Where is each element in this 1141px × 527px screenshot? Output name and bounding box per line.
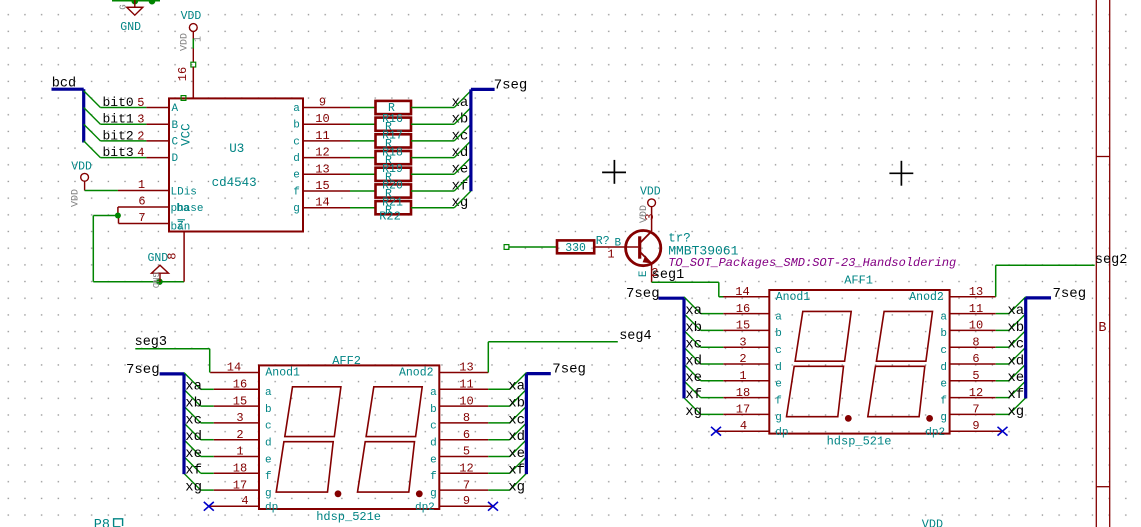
U3 pin 7 (blank) <box>119 223 170 225</box>
AFF1 pin 14 (Anod1) <box>720 296 770 298</box>
wire <box>350 107 376 109</box>
wire <box>201 388 214 390</box>
svg-text:5: 5 <box>137 96 144 110</box>
svg-text:AFF2: AFF2 <box>332 354 361 368</box>
wire <box>201 439 214 441</box>
bus 7seg (top) <box>469 89 472 191</box>
svg-text:17: 17 <box>233 478 247 492</box>
svg-text:xg: xg <box>452 195 469 211</box>
wire <box>701 380 724 382</box>
svg-text:xc: xc <box>1007 337 1024 353</box>
transistor emitter pin 2 <box>651 264 653 283</box>
bus entry <box>184 423 201 440</box>
svg-text:bit0: bit0 <box>103 95 134 110</box>
AFF2 pin 3 (c) <box>214 422 259 424</box>
svg-text:R22: R22 <box>379 210 401 224</box>
svg-text:seg1: seg1 <box>652 268 684 283</box>
svg-text:10: 10 <box>315 112 329 126</box>
svg-text:g: g <box>293 203 300 215</box>
svg-text:B: B <box>1098 321 1106 336</box>
svg-text:G: G <box>119 4 129 9</box>
svg-text:5: 5 <box>972 369 979 383</box>
svg-text:1: 1 <box>739 369 746 383</box>
svg-text:2: 2 <box>739 352 746 366</box>
svg-text:2: 2 <box>137 129 144 143</box>
AFF2 7-segment digit <box>366 387 422 437</box>
AFF2 pin 7 (g) <box>439 489 488 491</box>
bus entry <box>454 108 471 125</box>
svg-text:bit2: bit2 <box>103 128 134 143</box>
bus entry <box>684 381 701 398</box>
svg-text:A: A <box>172 103 179 115</box>
bus entry bit2 <box>84 124 101 141</box>
wire <box>488 388 509 390</box>
marker cross <box>889 172 913 174</box>
svg-text:xf: xf <box>452 178 469 194</box>
svg-text:VDD: VDD <box>180 33 191 51</box>
svg-text:a: a <box>775 311 782 323</box>
bus entry <box>510 373 527 390</box>
AFF2 7-segment digit <box>285 387 341 437</box>
svg-text:c: c <box>265 421 272 433</box>
svg-text:dp2: dp2 <box>415 502 435 514</box>
wire <box>201 422 214 424</box>
svg-text:AFF1: AFF1 <box>844 273 873 287</box>
resistor R21 <box>376 201 412 214</box>
AFF1 pin 10 (b) <box>950 329 996 331</box>
AFF1 pin 13 (Anod2) <box>950 296 996 298</box>
svg-text:GND: GND <box>150 272 160 288</box>
svg-text:VDD: VDD <box>922 518 943 527</box>
svg-text:7seg: 7seg <box>126 362 160 378</box>
AFF2 pin 12 (f) <box>439 472 488 474</box>
display AFF2 body <box>259 365 439 509</box>
svg-text:11: 11 <box>969 302 983 316</box>
svg-text:330: 330 <box>565 242 586 255</box>
svg-text:16: 16 <box>736 302 750 316</box>
svg-text:a: a <box>940 311 947 323</box>
svg-text:bit3: bit3 <box>103 145 134 160</box>
svg-text:D: D <box>172 153 179 165</box>
wire <box>996 313 1009 315</box>
svg-text:11: 11 <box>315 129 329 143</box>
AFF1 pin 16 (a) <box>723 313 769 315</box>
junction <box>156 279 162 285</box>
display AFF1 body <box>769 290 949 434</box>
AFF2 pin 8 (c) <box>439 422 488 424</box>
bus entry <box>454 91 471 108</box>
wire <box>350 190 376 192</box>
wire <box>350 123 376 125</box>
svg-text:g: g <box>265 488 272 500</box>
bus 7seg (right) <box>1026 296 1051 299</box>
wire <box>996 380 1009 382</box>
bus entry <box>510 389 527 406</box>
wire <box>701 346 724 348</box>
resistor R15 <box>376 101 412 114</box>
svg-text:1: 1 <box>236 445 243 459</box>
svg-text:3: 3 <box>137 113 144 127</box>
bus entry <box>1009 297 1026 314</box>
svg-text:g: g <box>940 412 947 424</box>
wire <box>701 313 724 315</box>
svg-text:8: 8 <box>972 335 979 349</box>
svg-text:7seg: 7seg <box>552 362 586 378</box>
bus entry <box>684 398 701 415</box>
svg-text:dp: dp <box>775 427 788 439</box>
AFF1 pin 8 (c) <box>950 346 996 348</box>
svg-text:xa: xa <box>1007 303 1024 319</box>
marker cross <box>602 171 626 173</box>
U3 pin 9 (a) <box>303 107 350 109</box>
svg-text:f: f <box>775 395 782 407</box>
svg-text:16: 16 <box>176 67 190 81</box>
svg-text:VDD: VDD <box>639 205 650 223</box>
AFF2 pin 1 (e) <box>214 456 259 458</box>
AFF2 pin 14 (Anod1) <box>210 372 259 374</box>
bus entry <box>454 124 471 141</box>
svg-text:b: b <box>265 404 272 416</box>
svg-text:4: 4 <box>137 146 144 160</box>
wire <box>996 363 1009 365</box>
svg-text:Anod1: Anod1 <box>265 367 300 380</box>
junction <box>132 0 139 5</box>
svg-text:VDD: VDD <box>71 189 82 207</box>
svg-text:xa: xa <box>452 95 469 111</box>
wire <box>996 413 1009 415</box>
svg-text:xg: xg <box>185 480 202 496</box>
svg-text:6: 6 <box>138 195 145 209</box>
AFF1 pin 11 (a) <box>950 313 996 315</box>
svg-text:4: 4 <box>241 494 248 508</box>
svg-text:Anod2: Anod2 <box>399 367 434 380</box>
bus 7seg (left) <box>160 372 184 375</box>
AFF2 pin 17 (g) <box>214 489 259 491</box>
svg-text:P8: P8 <box>94 518 110 527</box>
svg-text:B: B <box>172 120 179 132</box>
svg-text:xd: xd <box>452 145 469 161</box>
svg-text:B: B <box>615 237 622 249</box>
svg-text:dp2: dp2 <box>925 427 945 439</box>
bus entry <box>454 191 471 208</box>
svg-text:bit1: bit1 <box>103 112 134 127</box>
svg-text:e: e <box>940 379 947 391</box>
resistor R17 <box>376 134 412 147</box>
svg-text:VDD: VDD <box>71 161 92 174</box>
svg-text:C: C <box>172 137 179 149</box>
bus entry <box>454 141 471 158</box>
AFF1 pin 4 (dp) no-connect <box>716 430 769 432</box>
bus entry <box>1009 364 1026 381</box>
wire <box>350 140 376 142</box>
wire <box>701 363 724 365</box>
AFF2 pin 6 (d) <box>439 439 488 441</box>
AFF2 pin 2 (d) <box>214 439 259 441</box>
AFF2 pin 10 (b) <box>439 405 488 407</box>
svg-text:7: 7 <box>972 403 979 417</box>
bus 7seg (right) <box>526 372 550 375</box>
svg-text:c: c <box>293 136 300 148</box>
wire <box>701 413 724 415</box>
bus entry bit3 <box>84 141 101 158</box>
U3 pin 12 (d) <box>303 157 350 159</box>
svg-text:b: b <box>940 328 947 340</box>
AFF2 pin 13 (Anod2) <box>439 372 488 374</box>
bus entry <box>510 457 527 474</box>
svg-text:e: e <box>265 454 272 466</box>
svg-text:xe: xe <box>1007 370 1024 386</box>
AFF1 7-segment digit <box>795 311 851 361</box>
svg-text:17: 17 <box>736 403 750 417</box>
U3 pin 10 (b) <box>303 123 350 125</box>
svg-text:1: 1 <box>607 247 614 261</box>
bus entry <box>184 473 201 490</box>
svg-text:14: 14 <box>315 196 329 210</box>
svg-text:2: 2 <box>236 428 243 442</box>
U3 pin 1 (LDis) <box>118 190 169 192</box>
wire bit3 <box>100 157 146 159</box>
bus entry <box>1009 398 1026 415</box>
U3 pin 6 (phase) <box>118 206 169 208</box>
svg-text:7seg: 7seg <box>494 77 528 93</box>
svg-text:13: 13 <box>315 162 329 176</box>
AFF1 pin 18 (f) <box>723 397 769 399</box>
svg-text:d: d <box>265 438 272 450</box>
U3 pin 13 (e) <box>303 173 350 175</box>
AFF1 pin 1 (e) <box>723 380 769 382</box>
svg-text:13: 13 <box>459 361 473 375</box>
bus entry <box>510 440 527 457</box>
bus entry <box>684 297 701 314</box>
resistor R? 330 <box>557 240 594 253</box>
svg-text:7: 7 <box>138 211 145 225</box>
wire <box>411 123 454 125</box>
svg-text:a: a <box>293 103 300 115</box>
bus entry <box>510 423 527 440</box>
svg-text:f: f <box>293 186 300 198</box>
AFF2 pin 5 (e) <box>439 456 488 458</box>
svg-text:VDD: VDD <box>181 10 202 23</box>
svg-text:b: b <box>293 120 300 132</box>
bus entry <box>184 373 201 390</box>
AFF1 pin 9 (dp2) no-connect <box>950 430 1003 432</box>
svg-text:seg2: seg2 <box>1095 253 1127 268</box>
wire <box>488 439 509 441</box>
svg-text:e: e <box>430 454 437 466</box>
bus entry <box>1009 314 1026 331</box>
AFF2 pin 4 (dp) no-connect <box>209 505 259 507</box>
svg-text:1: 1 <box>138 178 145 192</box>
bus entry <box>1009 381 1026 398</box>
svg-text:f: f <box>265 471 272 483</box>
svg-text:3: 3 <box>739 335 746 349</box>
wire <box>411 190 454 192</box>
AFF1 pin 3 (c) <box>723 346 769 348</box>
svg-text:Anod2: Anod2 <box>909 291 944 304</box>
wire <box>996 346 1009 348</box>
AFF1 pin 7 (g) <box>950 413 996 415</box>
svg-text:12: 12 <box>315 146 329 160</box>
svg-text:GND: GND <box>120 21 141 34</box>
svg-text:cd4543: cd4543 <box>212 176 257 190</box>
svg-text:10: 10 <box>969 319 983 333</box>
U3 pin 5 (A) <box>146 107 169 109</box>
bus entry <box>684 347 701 364</box>
svg-text:6: 6 <box>972 352 979 366</box>
wire <box>93 215 118 217</box>
AFF2 pin 15 (b) <box>214 405 259 407</box>
svg-text:g: g <box>430 488 437 500</box>
svg-text:xg: xg <box>1007 404 1024 420</box>
svg-text:5: 5 <box>463 445 470 459</box>
svg-text:seg3: seg3 <box>135 335 167 350</box>
bus entry <box>184 457 201 474</box>
svg-text:d: d <box>775 362 782 374</box>
U3 pin 16 VCC <box>192 67 194 99</box>
wire <box>411 173 454 175</box>
AFF2 pin 11 (a) <box>439 388 488 390</box>
U3 pin 15 (f) <box>303 190 350 192</box>
wire <box>350 207 376 209</box>
AFF1 pin 6 (d) <box>950 363 996 365</box>
svg-text:e: e <box>775 379 782 391</box>
svg-text:15: 15 <box>315 179 329 193</box>
svg-text:U3: U3 <box>229 142 244 156</box>
resistor R18 <box>376 151 412 164</box>
wire <box>411 107 454 109</box>
AFF2 pin 9 (dp2) no-connect <box>439 505 493 507</box>
svg-text:g: g <box>775 412 782 424</box>
U3 pin 11 (c) <box>303 140 350 142</box>
svg-text:xg: xg <box>685 404 702 420</box>
svg-text:xa: xa <box>508 379 525 395</box>
svg-text:16: 16 <box>233 378 247 392</box>
wire bit1 <box>100 123 146 125</box>
AFF1 pin 2 (d) <box>723 363 769 365</box>
svg-text:c: c <box>940 345 947 357</box>
wire <box>201 456 214 458</box>
bus entry <box>684 331 701 348</box>
svg-text:14: 14 <box>227 361 241 375</box>
AFF1 pin 12 (f) <box>950 397 996 399</box>
svg-text:xf: xf <box>1007 387 1024 403</box>
bus entry <box>510 473 527 490</box>
bus entry <box>184 440 201 457</box>
wire <box>488 456 509 458</box>
svg-text:f: f <box>430 471 437 483</box>
svg-text:6: 6 <box>463 428 470 442</box>
resistor R19 <box>376 168 412 181</box>
svg-text:c: c <box>430 421 437 433</box>
wire <box>411 157 454 159</box>
svg-text:12: 12 <box>459 462 473 476</box>
wire (dangling) <box>504 245 509 250</box>
bus entry <box>454 174 471 191</box>
svg-text:18: 18 <box>736 386 750 400</box>
bus entry <box>184 389 201 406</box>
wire <box>996 329 1009 331</box>
wire seg1 <box>652 281 719 283</box>
svg-text:xb: xb <box>508 396 525 412</box>
svg-text:7seg: 7seg <box>626 286 660 302</box>
svg-text:xg: xg <box>508 480 525 496</box>
bus entry <box>454 158 471 175</box>
svg-text:d: d <box>940 362 947 374</box>
wire <box>488 472 509 474</box>
svg-text:14: 14 <box>735 285 749 299</box>
svg-text:7: 7 <box>463 478 470 492</box>
transistor collector pin 3 <box>651 207 653 232</box>
svg-text:9: 9 <box>972 419 979 433</box>
AFF1 pin 15 (b) <box>723 329 769 331</box>
svg-text:ba: ba <box>176 203 190 215</box>
wire <box>85 190 118 192</box>
svg-text:3: 3 <box>236 411 243 425</box>
wire <box>488 405 509 407</box>
svg-text:Z: Z <box>177 220 184 232</box>
svg-text:e: e <box>293 170 300 182</box>
svg-text:1: 1 <box>194 36 205 42</box>
svg-text:7seg: 7seg <box>1053 286 1087 302</box>
resistor R20 <box>376 184 412 197</box>
svg-text:4: 4 <box>740 419 747 433</box>
svg-text:LDis: LDis <box>171 187 197 199</box>
wire <box>350 173 376 175</box>
wire <box>201 472 214 474</box>
transistor Q tr? MMBT3906 <box>626 231 661 266</box>
wire <box>411 140 454 142</box>
wire bit0 <box>100 107 146 109</box>
svg-text:xd: xd <box>1007 353 1024 369</box>
transistor Q tr? base pin 1 <box>594 246 638 248</box>
wire <box>411 207 454 209</box>
wire <box>201 405 214 407</box>
junction <box>115 213 121 219</box>
bus entry <box>684 314 701 331</box>
svg-text:8: 8 <box>463 411 470 425</box>
ground GND top <box>134 0 136 7</box>
bus entry <box>1009 331 1026 348</box>
bus entry bit0 <box>84 91 101 108</box>
svg-text:8: 8 <box>166 253 180 260</box>
AFF1 7-segment digit <box>876 311 932 361</box>
svg-text:VDD: VDD <box>640 186 661 199</box>
wire seg1 to AFF1 pin14 <box>719 296 724 298</box>
wire seg4 <box>487 342 489 373</box>
AFF1 pin 5 (e) <box>950 380 996 382</box>
svg-text:d: d <box>430 438 437 450</box>
wire bit2 <box>100 140 146 142</box>
bus entry <box>184 406 201 423</box>
wire <box>192 39 194 49</box>
svg-text:18: 18 <box>233 462 247 476</box>
svg-text:xb: xb <box>1007 320 1024 336</box>
svg-text:b: b <box>430 404 437 416</box>
svg-text:hdsp_521e: hdsp_521e <box>827 435 892 449</box>
svg-text:xc: xc <box>452 128 469 144</box>
AFF2 pin 18 (f) <box>214 472 259 474</box>
bus entry <box>1009 347 1026 364</box>
wire <box>112 0 160 2</box>
wire <box>701 329 724 331</box>
svg-text:c: c <box>775 345 782 357</box>
svg-text:9: 9 <box>319 96 326 110</box>
bus entry bit1 <box>84 108 101 125</box>
svg-text:f: f <box>940 395 947 407</box>
bus entry <box>684 364 701 381</box>
svg-text:xe: xe <box>452 162 469 178</box>
wire <box>701 397 724 399</box>
